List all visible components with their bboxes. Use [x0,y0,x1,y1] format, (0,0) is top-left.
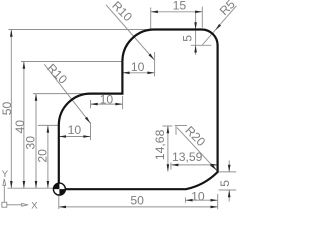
part profile outline [59,30,218,190]
svg-text:50: 50 [0,102,14,116]
svg-text:14,68: 14,68 [153,129,167,160]
svg-text:15: 15 [173,0,187,13]
wire ext 10-mid right [122,96,124,109]
wire ext y=30 [33,93,91,95]
wire ext 13,59 left tick [170,163,172,170]
node arrows dim13,59 [171,164,178,167]
svg-text:10: 10 [100,93,114,107]
node arrows dim30 left [35,94,38,101]
node arrows dim5 top-right [194,22,197,29]
wire dim 14,68 [167,126,169,172]
wire dim 5 right [228,161,230,172]
wire ext 10-dim left [185,197,187,202]
node arrows dim5 right [228,165,231,172]
svg-text:13,59: 13,59 [172,150,203,164]
node arrows dim40 left [23,62,26,69]
svg-text:20: 20 [36,149,50,163]
node arrow leader R10 top [148,54,155,61]
node arrows dim10 top-left [122,72,129,75]
node arrow leader R20 [211,164,218,171]
node arrow leader R5 [214,24,221,31]
node arrows dim20 left [47,125,50,132]
node arrows dim50 bottom [59,206,66,209]
wire leader R10 top [106,5,154,60]
wire dim 13,59 [171,164,218,166]
wire ext 10-lower right [90,122,92,140]
axis icon [2,179,28,207]
wire dim 50 bottom [59,206,218,208]
wire ext 14,68 top tick [163,125,173,127]
svg-text:50: 50 [130,194,144,208]
wire dim 10 middle [91,103,123,105]
node arrows dim10 lower [59,135,66,138]
wire dim 50 left vertical [10,30,12,189]
node R20 center mark [175,125,187,127]
wire ext bottom-left [58,192,60,209]
svg-text:5: 5 [180,35,194,42]
wire leader R20 [177,128,217,171]
wire dim 30 left vertical [35,94,37,189]
wire leader R10 middle [44,64,90,123]
svg-text:10: 10 [131,60,145,74]
wire dim 20 left vertical [47,125,49,188]
node arrows dim50 left [10,30,13,37]
wire leader R5 [202,6,236,45]
node arrow leader R10 middle [85,117,91,124]
wire dim 15 top [151,11,203,13]
wire ext 5-right top [218,171,237,173]
wire dim 10 bottom-right [186,199,218,201]
node arrows dim10 bottom [186,199,193,202]
wire ext bottom-right [217,194,219,209]
svg-text:10: 10 [68,123,82,137]
wire dim 5 top-right [195,12,197,46]
wire ext 10-mid left [90,100,92,108]
wire ext 15 right [201,7,203,28]
svg-text:Y: Y [2,169,9,180]
wire ext y=40 [21,61,122,63]
wire ext y=50 [9,29,155,31]
svg-text:10: 10 [191,189,205,203]
wire ext 10-topleft right [154,52,156,77]
wire ext 15 left [150,8,152,30]
wire dim 40 left vertical [23,62,25,189]
svg-text:5: 5 [218,180,232,187]
wire dim 10 top-left [122,72,154,74]
svg-text:40: 40 [13,120,27,134]
node arrows dim10 middle [91,103,98,106]
wire ext 5-top [191,44,212,46]
svg-text:X: X [31,200,38,211]
node arrows dim15 top [151,11,158,14]
wire dim 10 lower-left [59,136,91,138]
wire ext y=20 [38,124,58,126]
wire ext 5-right bottom [219,189,237,191]
node arrows dim14,68 [167,126,170,133]
wire ext baseline y=0 [8,187,54,189]
svg-text:30: 30 [23,136,37,150]
origin datum symbol [53,183,65,195]
